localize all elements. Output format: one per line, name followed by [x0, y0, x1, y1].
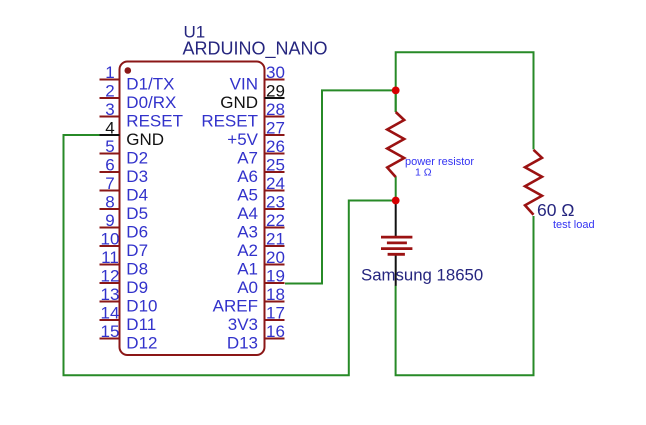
svg-text:13: 13 [101, 285, 120, 304]
svg-text:17: 17 [266, 304, 285, 323]
svg-text:D7: D7 [126, 241, 148, 260]
svg-text:GND: GND [126, 130, 164, 149]
svg-text:D1/TX: D1/TX [126, 75, 174, 94]
svg-text:8: 8 [105, 193, 114, 212]
svg-text:A1: A1 [237, 260, 258, 279]
svg-text:10: 10 [101, 230, 120, 249]
svg-text:+5V: +5V [227, 130, 258, 149]
svg-text:ARDUINO_NANO: ARDUINO_NANO [183, 39, 328, 60]
svg-text:3V3: 3V3 [228, 315, 258, 334]
svg-text:D5: D5 [126, 204, 148, 223]
svg-text:5: 5 [105, 137, 114, 156]
svg-text:1 Ω: 1 Ω [415, 166, 432, 178]
svg-text:A3: A3 [237, 223, 258, 242]
svg-text:60 Ω: 60 Ω [537, 200, 574, 220]
svg-text:GND: GND [220, 93, 258, 112]
svg-text:23: 23 [266, 193, 285, 212]
svg-text:D6: D6 [126, 223, 148, 242]
svg-text:test load: test load [553, 219, 595, 231]
svg-text:A2: A2 [237, 241, 258, 260]
svg-text:29: 29 [266, 82, 285, 101]
svg-text:A5: A5 [237, 186, 258, 205]
svg-text:D3: D3 [126, 167, 148, 186]
svg-text:19: 19 [266, 267, 285, 286]
svg-text:22: 22 [266, 211, 285, 230]
svg-text:AREF: AREF [213, 297, 258, 316]
svg-text:12: 12 [101, 267, 120, 286]
svg-text:3: 3 [105, 100, 114, 119]
svg-text:9: 9 [105, 211, 114, 230]
svg-text:RESET: RESET [126, 112, 183, 131]
svg-text:A7: A7 [237, 149, 258, 168]
svg-text:11: 11 [101, 248, 119, 267]
svg-text:28: 28 [266, 100, 285, 119]
svg-text:A6: A6 [237, 167, 258, 186]
svg-text:D10: D10 [126, 297, 157, 316]
svg-text:26: 26 [266, 137, 285, 156]
svg-text:18: 18 [266, 285, 285, 304]
svg-text:6: 6 [105, 156, 114, 175]
svg-text:D0/RX: D0/RX [126, 93, 176, 112]
svg-text:RESET: RESET [201, 112, 258, 131]
svg-text:D4: D4 [126, 186, 148, 205]
svg-text:7: 7 [105, 174, 114, 193]
svg-text:25: 25 [266, 156, 285, 175]
svg-text:D2: D2 [126, 149, 148, 168]
svg-text:14: 14 [101, 304, 120, 323]
svg-text:24: 24 [266, 174, 285, 193]
svg-text:D9: D9 [126, 278, 148, 297]
svg-text:VIN: VIN [230, 75, 258, 94]
svg-text:21: 21 [266, 230, 285, 249]
svg-text:16: 16 [266, 322, 285, 341]
svg-text:D12: D12 [126, 334, 157, 353]
svg-text:D8: D8 [126, 260, 148, 279]
svg-text:D13: D13 [227, 334, 258, 353]
svg-text:A4: A4 [237, 204, 258, 223]
svg-text:A0: A0 [237, 278, 258, 297]
svg-text:15: 15 [101, 322, 120, 341]
svg-text:20: 20 [266, 248, 285, 267]
svg-text:Samsung 18650: Samsung 18650 [361, 266, 483, 285]
svg-text:27: 27 [266, 119, 285, 138]
svg-text:1: 1 [105, 63, 114, 82]
svg-text:4: 4 [105, 119, 114, 138]
svg-text:D11: D11 [126, 315, 156, 334]
svg-text:2: 2 [105, 82, 114, 101]
svg-text:30: 30 [266, 63, 285, 82]
